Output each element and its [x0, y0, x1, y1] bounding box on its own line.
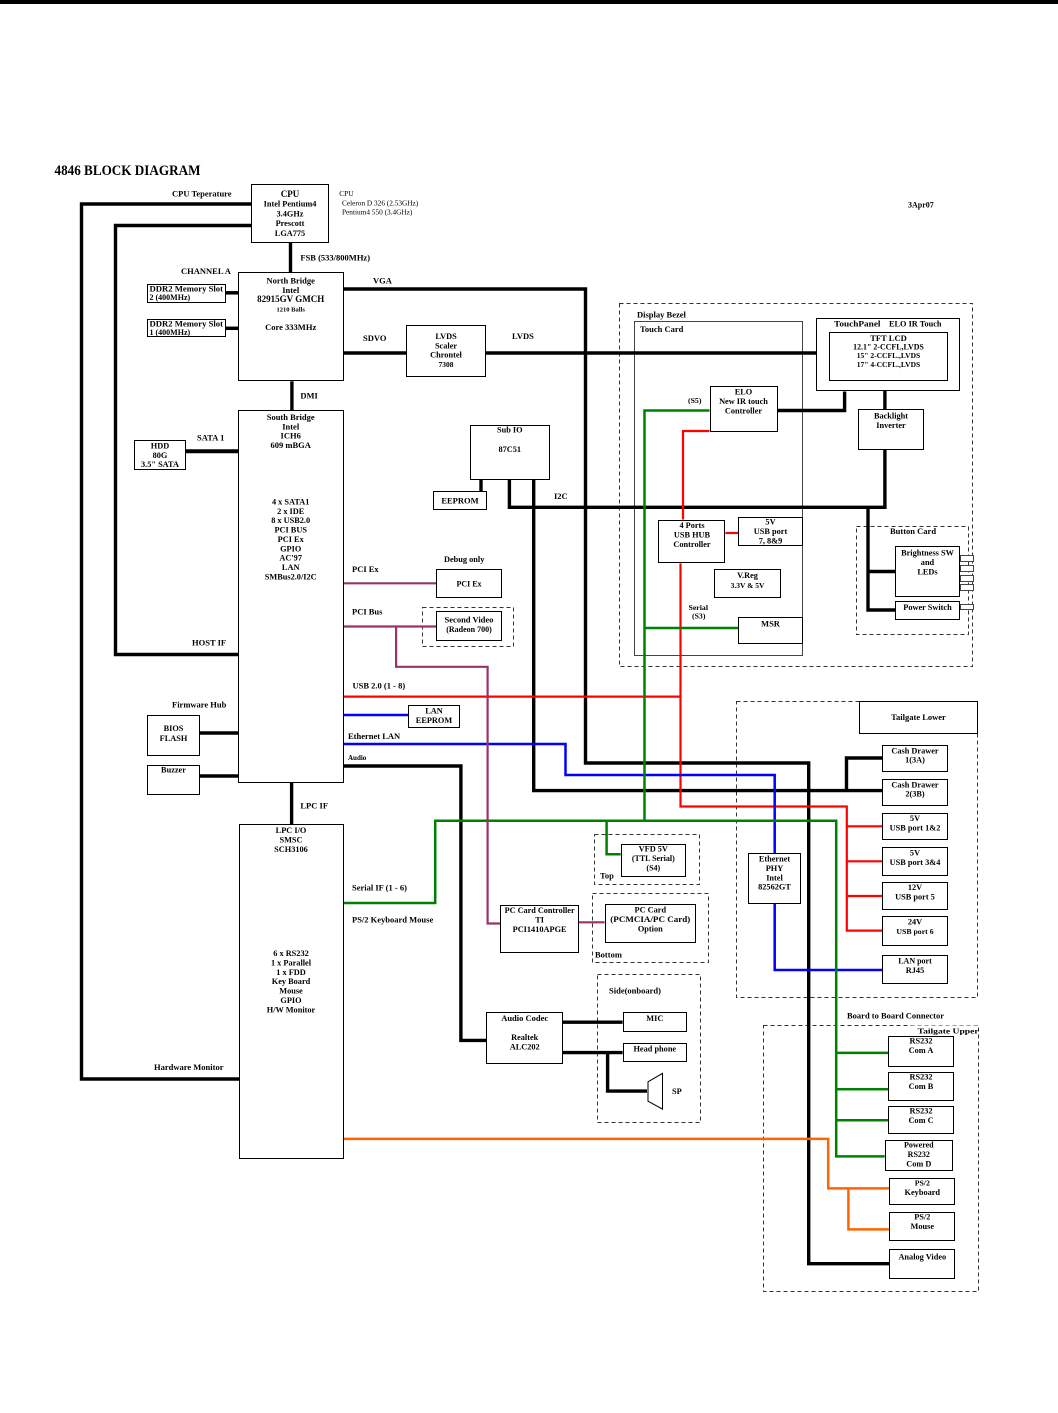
svg-text:RS232: RS232	[909, 1037, 932, 1046]
svg-text:SP: SP	[672, 1087, 682, 1096]
svg-text:VFD 5V: VFD 5V	[639, 845, 668, 854]
svg-text:Com B: Com B	[909, 1082, 934, 1091]
svg-text:Tailgate Lower: Tailgate Lower	[891, 712, 946, 722]
svg-text:8 x USB2.0: 8 x USB2.0	[271, 516, 310, 525]
svg-text:2 x IDE: 2 x IDE	[277, 507, 305, 516]
svg-text:ELO: ELO	[735, 388, 753, 397]
svg-text:3.4GHz: 3.4GHz	[277, 209, 304, 218]
svg-text:TouchPanel: TouchPanel	[834, 319, 881, 329]
svg-text:SDVO: SDVO	[363, 333, 387, 343]
svg-text:PCI Ex: PCI Ex	[456, 580, 481, 589]
svg-text:HDD: HDD	[151, 442, 169, 451]
svg-text:Realtek: Realtek	[511, 1033, 539, 1042]
svg-text:5V: 5V	[910, 849, 920, 858]
svg-text:Button Card: Button Card	[890, 526, 936, 536]
svg-text:USB HUB: USB HUB	[674, 530, 711, 539]
svg-text:Cash Drawer: Cash Drawer	[891, 781, 939, 790]
svg-text:(S4): (S4)	[646, 863, 660, 872]
svg-text:PCI1410APGE: PCI1410APGE	[513, 925, 567, 934]
svg-text:1210 Balls: 1210 Balls	[277, 306, 306, 313]
svg-text:PCI Ex: PCI Ex	[278, 535, 305, 544]
svg-text:80G: 80G	[153, 451, 168, 460]
svg-text:(S3): (S3)	[692, 612, 706, 621]
svg-text:PCI BUS: PCI BUS	[274, 526, 307, 535]
svg-text:3Apr07: 3Apr07	[908, 201, 934, 210]
svg-text:LGA775: LGA775	[275, 229, 305, 238]
svg-text:Com D: Com D	[906, 1159, 931, 1168]
svg-text:DMI: DMI	[300, 391, 318, 401]
svg-text:Brightness SW: Brightness SW	[901, 549, 954, 558]
svg-text:RS232: RS232	[908, 1150, 930, 1159]
svg-text:12V: 12V	[908, 883, 922, 892]
svg-text:4 Ports: 4 Ports	[679, 521, 705, 530]
svg-text:4846 BLOCK DIAGRAM: 4846 BLOCK DIAGRAM	[55, 163, 201, 179]
svg-text:LAN port: LAN port	[898, 957, 932, 966]
svg-text:PS/2 Keyboard Mouse: PS/2 Keyboard Mouse	[352, 915, 433, 925]
svg-text:USB port 1&2: USB port 1&2	[890, 823, 941, 832]
svg-text:SATA 1: SATA 1	[197, 433, 224, 443]
svg-text:Power Switch: Power Switch	[903, 603, 952, 612]
svg-text:Powered: Powered	[904, 1141, 934, 1150]
svg-text:(Radeon 700): (Radeon 700)	[446, 625, 492, 634]
svg-text:PHY: PHY	[766, 864, 784, 873]
svg-text:USB port: USB port	[754, 527, 788, 536]
svg-text:CHANNEL A: CHANNEL A	[181, 266, 232, 276]
svg-text:Ethernet: Ethernet	[759, 855, 791, 864]
svg-text:Pentium4 550 (3.4GHz): Pentium4 550 (3.4GHz)	[342, 208, 413, 217]
svg-text:5V: 5V	[765, 518, 775, 527]
svg-text:HOST IF: HOST IF	[192, 638, 226, 648]
svg-text:Side(onboard): Side(onboard)	[609, 986, 661, 996]
svg-text:4 x SATA1: 4 x SATA1	[272, 498, 310, 507]
svg-text:Mouse: Mouse	[911, 1222, 935, 1231]
svg-text:LVDS: LVDS	[512, 331, 534, 341]
svg-text:LPC I/O: LPC I/O	[276, 826, 307, 835]
svg-text:Second Video: Second Video	[445, 615, 494, 625]
svg-text:87C51: 87C51	[499, 445, 522, 454]
svg-text:TI: TI	[535, 915, 544, 924]
svg-text:Hardware Monitor: Hardware Monitor	[154, 1062, 224, 1072]
svg-text:MSR: MSR	[761, 619, 781, 629]
svg-text:LAN: LAN	[282, 563, 300, 572]
svg-text:Display Bezel: Display Bezel	[637, 310, 687, 320]
svg-text:ALC202: ALC202	[510, 1043, 540, 1052]
svg-text:SCH3106: SCH3106	[274, 845, 308, 854]
svg-text:CPU Teperature: CPU Teperature	[172, 189, 232, 199]
svg-text:Board to Board Connector: Board to Board Connector	[847, 1010, 944, 1020]
svg-text:Touch Card: Touch Card	[640, 324, 684, 334]
svg-text:Celeron D 326 (2.53GHz): Celeron D 326 (2.53GHz)	[342, 199, 419, 208]
svg-text:Chrontel: Chrontel	[430, 351, 462, 360]
svg-text:Audio Codec: Audio Codec	[501, 1013, 548, 1023]
svg-text:RJ45: RJ45	[906, 966, 924, 975]
svg-text:RS232: RS232	[909, 1107, 932, 1116]
svg-text:Audio: Audio	[348, 754, 367, 762]
svg-text:Keyboard: Keyboard	[905, 1188, 941, 1197]
svg-text:24V: 24V	[908, 918, 922, 927]
svg-text:Com A: Com A	[909, 1046, 934, 1055]
svg-text:3.5" SATA: 3.5" SATA	[141, 460, 179, 469]
svg-text:CPU: CPU	[339, 189, 354, 198]
svg-text:EEPROM: EEPROM	[441, 496, 478, 506]
svg-text:PCI Bus: PCI Bus	[352, 607, 383, 617]
svg-text:BIOS: BIOS	[164, 724, 184, 733]
svg-text:Key Board: Key Board	[272, 977, 311, 986]
svg-text:Scaler: Scaler	[435, 341, 457, 350]
svg-text:Mouse: Mouse	[279, 987, 303, 996]
svg-text:GPIO: GPIO	[280, 544, 302, 553]
svg-text:609 mBGA: 609 mBGA	[271, 440, 312, 450]
svg-text:LPC IF: LPC IF	[300, 801, 328, 811]
svg-text:LVDS: LVDS	[435, 332, 457, 341]
svg-text:Sub IO: Sub IO	[497, 426, 523, 435]
svg-text:Top: Top	[600, 870, 614, 880]
svg-text:SMSC: SMSC	[279, 835, 302, 844]
svg-text:1(3A): 1(3A)	[905, 756, 925, 765]
svg-text:Backlight: Backlight	[874, 412, 908, 421]
svg-text:PS/2: PS/2	[915, 1179, 930, 1188]
svg-text:6 x RS232: 6 x RS232	[273, 949, 309, 958]
svg-text:MIC: MIC	[646, 1014, 663, 1023]
svg-text:Intel: Intel	[766, 873, 783, 882]
svg-text:82562GT: 82562GT	[758, 883, 791, 892]
svg-text:Option: Option	[638, 924, 663, 933]
svg-text:PCI Ex: PCI Ex	[352, 564, 379, 574]
svg-text:3.3V & 5V: 3.3V & 5V	[731, 581, 765, 590]
svg-text:RS232: RS232	[909, 1073, 932, 1082]
svg-text:7, 8&9: 7, 8&9	[759, 536, 783, 545]
svg-text:Buzzer: Buzzer	[161, 766, 186, 775]
svg-text:82915GV GMCH: 82915GV GMCH	[257, 294, 324, 304]
svg-text:Controller: Controller	[673, 540, 710, 549]
svg-text:FLASH: FLASH	[160, 734, 188, 743]
svg-text:17" 4-CCFL.,LVDS: 17" 4-CCFL.,LVDS	[857, 360, 920, 369]
svg-text:2 (400MHz): 2 (400MHz)	[150, 293, 191, 302]
svg-text:SMBus2.0/I2C: SMBus2.0/I2C	[265, 572, 317, 581]
svg-text:Bottom: Bottom	[595, 950, 622, 960]
svg-text:7308: 7308	[439, 360, 454, 369]
svg-text:PS/2: PS/2	[914, 1213, 930, 1222]
svg-text:Controller: Controller	[725, 406, 762, 415]
svg-text:LAN: LAN	[425, 707, 443, 716]
svg-text:USB 2.0 (1 - 8): USB 2.0 (1 - 8)	[353, 681, 406, 691]
svg-text:Head phone: Head phone	[633, 1045, 676, 1054]
svg-text:PC Card: PC Card	[635, 906, 667, 915]
svg-text:VGA: VGA	[373, 276, 393, 286]
svg-text:I2C: I2C	[554, 491, 568, 501]
svg-text:and: and	[921, 558, 935, 567]
svg-text:Ethernet LAN: Ethernet LAN	[348, 731, 401, 741]
svg-text:Tailgate Upper: Tailgate Upper	[918, 1027, 980, 1036]
svg-text:5V: 5V	[910, 814, 920, 823]
svg-text:AC'97: AC'97	[279, 554, 302, 563]
svg-text:Debug only: Debug only	[444, 555, 485, 564]
svg-text:LEDs: LEDs	[917, 567, 938, 576]
svg-text:EEPROM: EEPROM	[416, 716, 453, 725]
svg-text:Serial IF (1 - 6): Serial IF (1 - 6)	[352, 883, 407, 893]
svg-text:GPIO: GPIO	[280, 996, 302, 1005]
svg-text:PC Card Controller: PC Card Controller	[505, 906, 575, 915]
svg-text:Intel Pentium4: Intel Pentium4	[264, 200, 317, 209]
svg-text:1 (400MHz): 1 (400MHz)	[150, 328, 191, 337]
svg-text:Inverter: Inverter	[876, 421, 906, 430]
svg-text:H/W Monitor: H/W Monitor	[267, 1005, 316, 1014]
svg-text:1 x FDD: 1 x FDD	[276, 968, 306, 977]
svg-text:(PCMCIA/PC Card): (PCMCIA/PC Card)	[610, 915, 690, 924]
svg-text:V.Reg: V.Reg	[737, 571, 759, 580]
svg-text:Com C: Com C	[908, 1116, 933, 1125]
svg-text:Prescott: Prescott	[276, 219, 305, 228]
svg-text:Firmware Hub: Firmware Hub	[172, 700, 227, 710]
svg-text:(S5): (S5)	[688, 396, 702, 405]
svg-text:2(3B): 2(3B)	[905, 790, 925, 799]
svg-text:TFT LCD: TFT LCD	[870, 333, 906, 343]
svg-text:New IR touch: New IR touch	[719, 397, 768, 406]
svg-text:Analog Video: Analog Video	[898, 1253, 946, 1262]
svg-text:1 x Parallel: 1 x Parallel	[271, 958, 312, 967]
svg-text:USB port 5: USB port 5	[895, 892, 935, 901]
svg-text:(TTL Serial): (TTL Serial)	[632, 854, 675, 863]
svg-text:USB port 6: USB port 6	[896, 927, 933, 936]
svg-text:CPU: CPU	[281, 189, 300, 199]
svg-text:Cash Drawer: Cash Drawer	[891, 747, 939, 756]
svg-text:USB port 3&4: USB port 3&4	[890, 858, 941, 867]
svg-text:Core 333MHz: Core 333MHz	[265, 322, 316, 332]
svg-text:FSB (533/800MHz): FSB (533/800MHz)	[300, 253, 370, 263]
svg-text:ELO IR Touch: ELO IR Touch	[889, 319, 942, 329]
